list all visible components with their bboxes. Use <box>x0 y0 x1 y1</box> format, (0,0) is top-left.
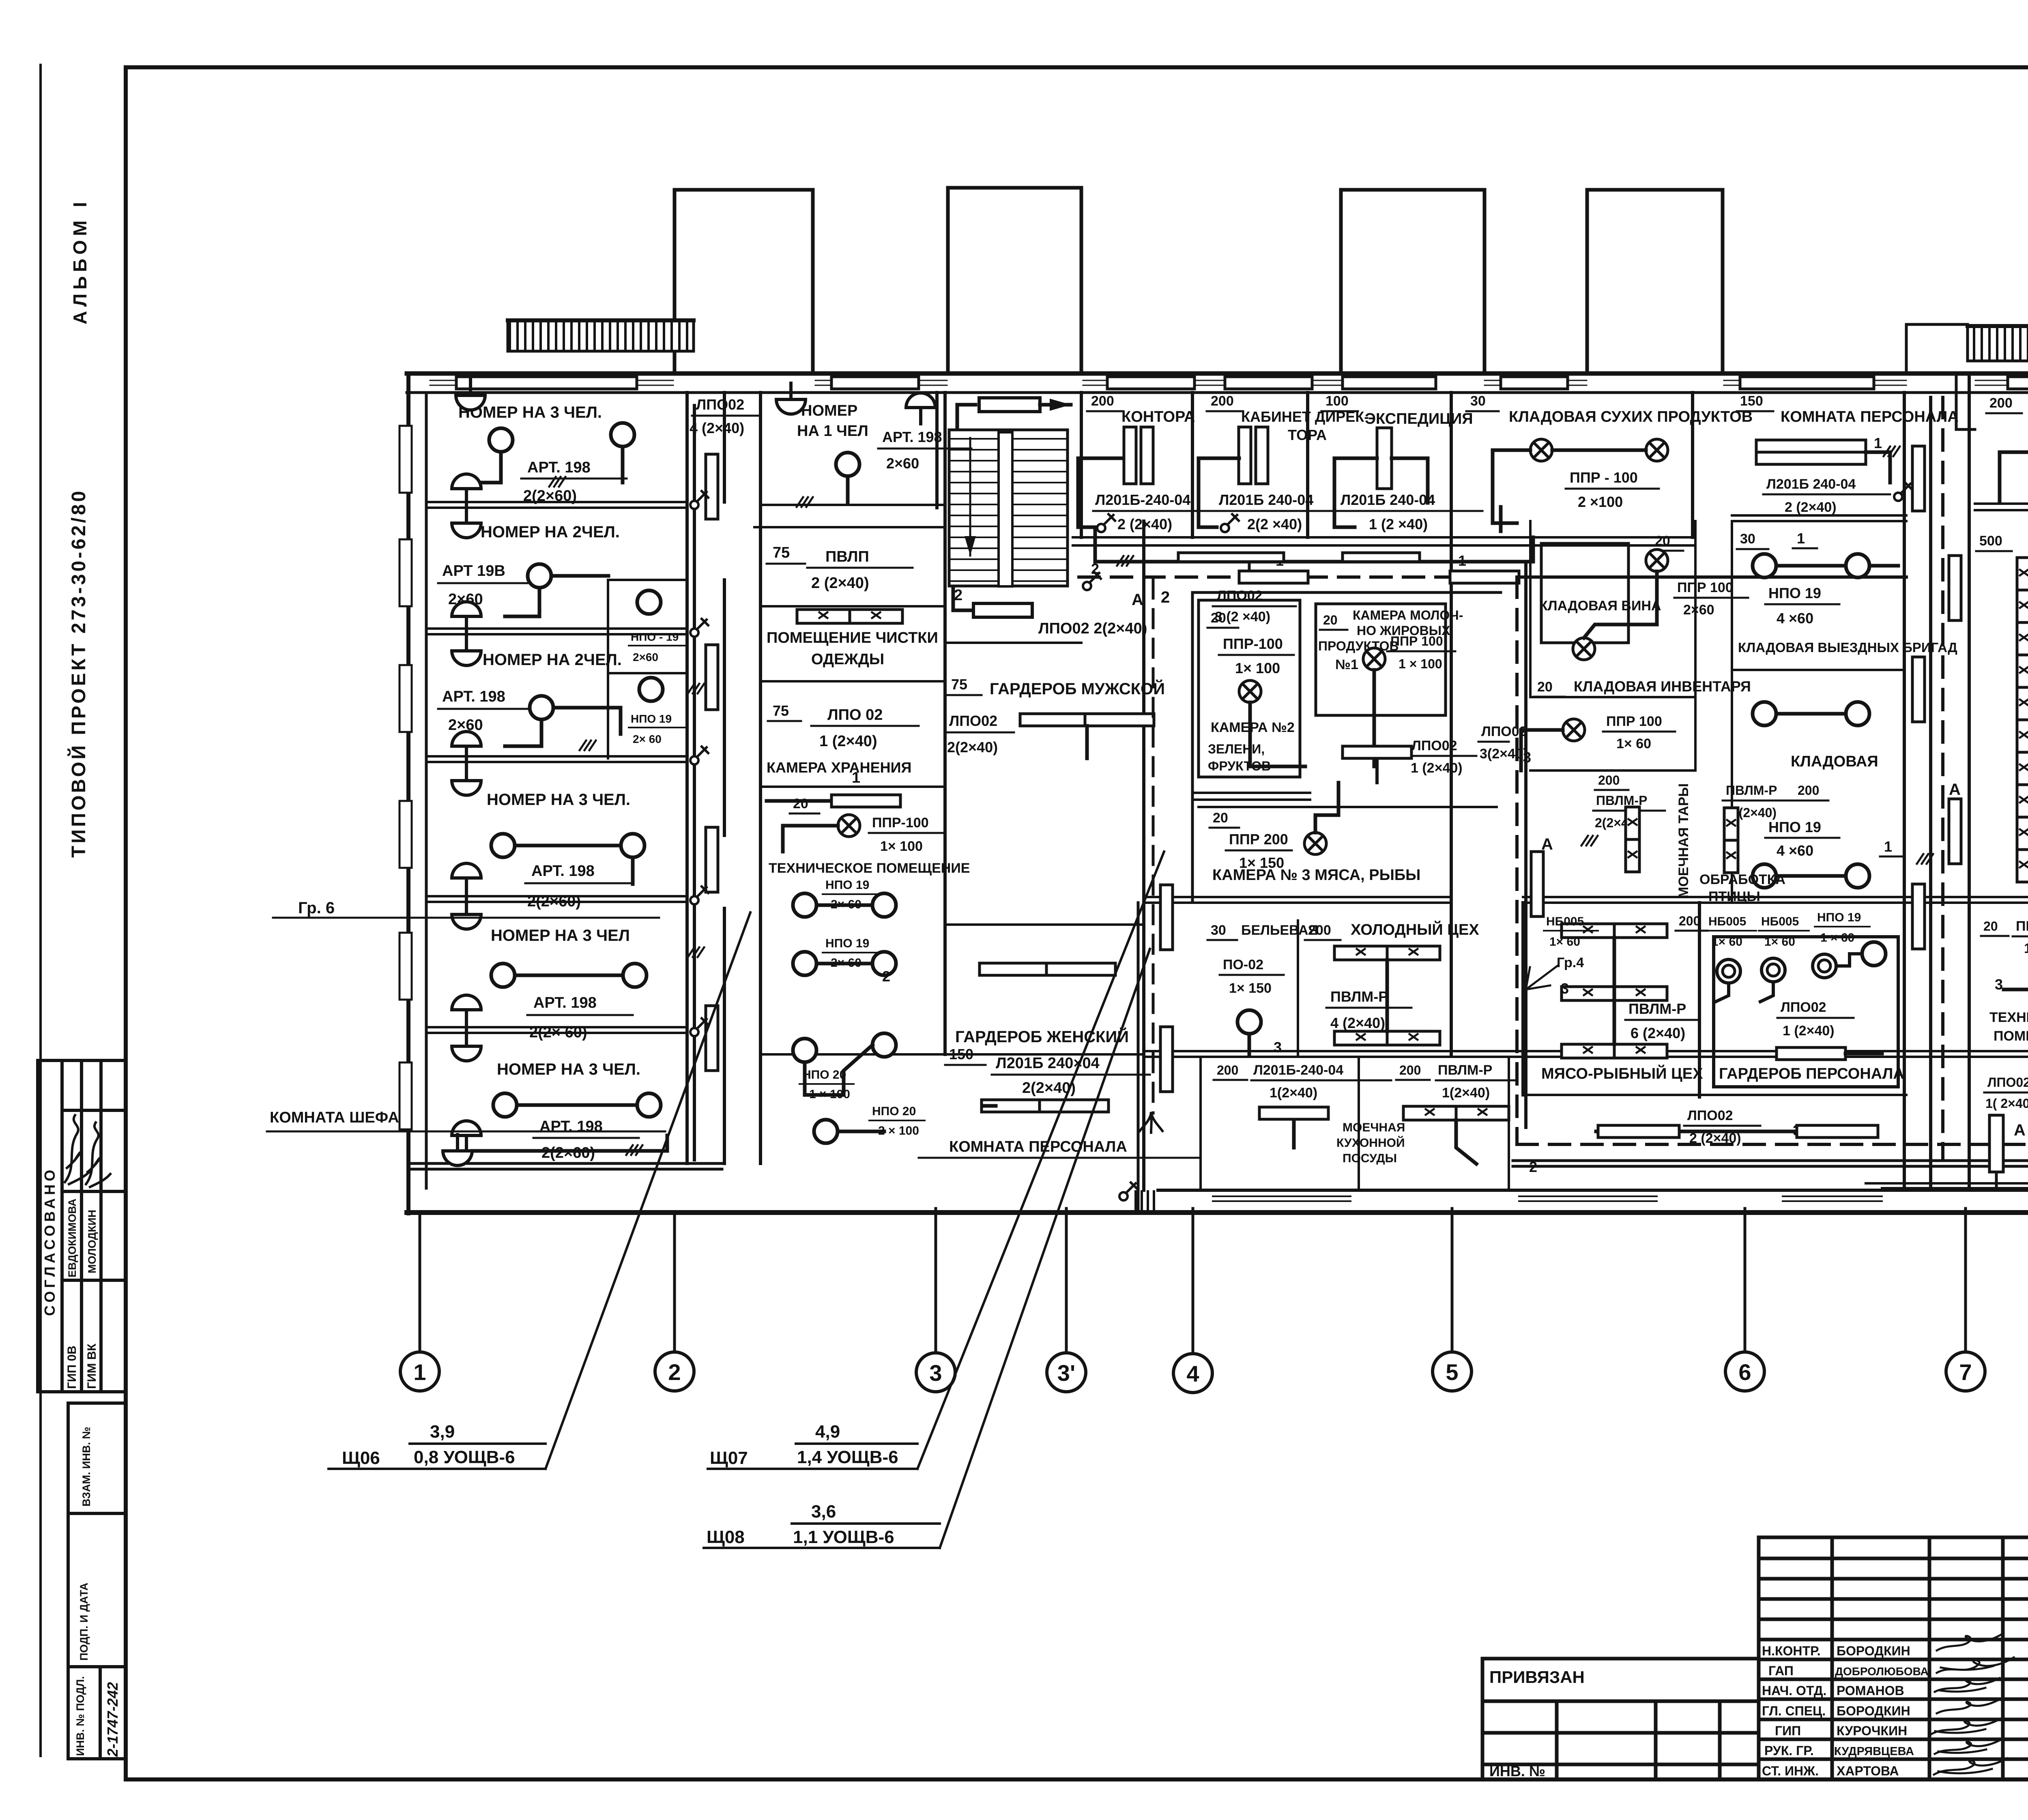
svg-text:4: 4 <box>1186 1361 1199 1386</box>
svg-text:НБ005: НБ005 <box>1708 915 1746 928</box>
svg-text:1(2×40): 1(2×40) <box>1442 1085 1490 1101</box>
svg-text:200: 200 <box>1399 1063 1421 1077</box>
svg-text:МОЕЧНАЯ: МОЕЧНАЯ <box>1343 1121 1405 1134</box>
svg-text:СОГЛАСОВАНО: СОГЛАСОВАНО <box>41 1167 58 1316</box>
svg-text:СТ. ИНЖ.: СТ. ИНЖ. <box>1762 1764 1819 1778</box>
title block <box>1482 1537 2028 1815</box>
svg-text:ПВЛМ-Р: ПВЛМ-Р <box>1726 783 1777 798</box>
svg-text:30: 30 <box>1470 393 1486 409</box>
svg-text:АРТ. 198: АРТ. 198 <box>531 863 595 880</box>
svg-text:ХОЛОДНЫЙ ЦЕХ: ХОЛОДНЫЙ ЦЕХ <box>1351 920 1479 938</box>
svg-text:МОЛОДКИН: МОЛОДКИН <box>86 1210 98 1273</box>
svg-text:2 (2×40): 2 (2×40) <box>811 575 869 592</box>
BUILDING <box>267 188 2028 1216</box>
female cloakroom fixtures <box>980 963 1048 975</box>
svg-text:20: 20 <box>1655 533 1670 549</box>
svg-text:КОМНАТА ПЕРСОНАЛА: КОМНАТА ПЕРСОНАЛА <box>949 1138 1127 1155</box>
NPO20 lamps lower <box>793 1039 816 1062</box>
middle production block vertical <box>1142 521 1145 1190</box>
svg-text:ГИП: ГИП <box>1775 1723 1801 1738</box>
svg-text:Л201Б 240-04: Л201Б 240-04 <box>1766 476 1856 492</box>
LPO02 2(2x40) left label <box>1083 572 1101 590</box>
inventory storage <box>1530 769 1695 772</box>
svg-text:1× 60: 1× 60 <box>1549 935 1580 949</box>
svg-text:2(2× 60): 2(2× 60) <box>529 1024 587 1041</box>
svg-text:ППР 100: ППР 100 <box>1390 634 1443 648</box>
svg-text:БОРОДКИН: БОРОДКИН <box>1837 1644 1910 1658</box>
svg-text:НПО 19: НПО 19 <box>1768 819 1821 835</box>
svg-text:ППР - 100: ППР - 100 <box>1570 469 1638 486</box>
svg-text:4 (2×40): 4 (2×40) <box>690 420 744 436</box>
room 6 lower wire <box>472 1135 667 1151</box>
svg-text:20: 20 <box>1323 613 1338 627</box>
svg-text:КАМЕРА №2: КАМЕРА №2 <box>1211 720 1295 735</box>
svg-text:АРТ 19В: АРТ 19В <box>442 562 505 579</box>
dome pair r3/r4 <box>452 732 481 762</box>
svg-text:НОМЕР НА 2ЧЕЛ.: НОМЕР НА 2ЧЕЛ. <box>483 651 622 669</box>
svg-text:75: 75 <box>773 544 790 561</box>
balcony hatched strip left <box>508 320 694 351</box>
svg-text:4 ×60: 4 ×60 <box>1777 842 1813 859</box>
svg-text:АРТ. 198: АРТ. 198 <box>442 688 505 705</box>
svg-text:5: 5 <box>1446 1359 1458 1385</box>
svg-text:НПО 20: НПО 20 <box>802 1068 846 1082</box>
svg-text:2(2×60): 2(2×60) <box>541 1144 595 1161</box>
svg-text:ЛПО02: ЛПО02 <box>1687 1108 1733 1123</box>
soglasovano table <box>38 1060 126 1392</box>
svg-text:КЛАДОВАЯ СУХИХ ПРОДУКТОВ: КЛАДОВАЯ СУХИХ ПРОДУКТОВ <box>1509 408 1753 425</box>
svg-text:Щ08: Щ08 <box>707 1527 745 1547</box>
svg-text:АЛЬБОМ I: АЛЬБОМ I <box>69 198 90 324</box>
svg-text:1 × 100: 1 × 100 <box>809 1088 850 1101</box>
svg-text:3: 3 <box>1561 980 1569 997</box>
left wall windows <box>400 426 412 1129</box>
svg-text:КАМЕРА ХРАНЕНИЯ: КАМЕРА ХРАНЕНИЯ <box>767 759 911 776</box>
svg-text:ЕВДОКИМОВА: ЕВДОКИМОВА <box>66 1199 78 1277</box>
svg-text:ГАРДЕРОБ ПЕРСОНАЛА: ГАРДЕРОБ ПЕРСОНАЛА <box>1719 1065 1904 1082</box>
svg-text:БЕЛЬЕВАЯ: БЕЛЬЕВАЯ <box>1241 923 1318 938</box>
switches along corridor <box>690 491 708 509</box>
right block konttora bottom <box>1975 502 2028 505</box>
top outer wall <box>407 371 2028 376</box>
svg-text:2: 2 <box>1091 560 1099 577</box>
wine storage room <box>1541 543 1628 643</box>
svg-text:150: 150 <box>1740 393 1763 409</box>
svg-text:КЛАДОВАЯ ВИНА: КЛАДОВАЯ ВИНА <box>1539 598 1661 614</box>
svg-text:РУК. ГР.: РУК. ГР. <box>1764 1743 1814 1758</box>
svg-text:1 (2×40): 1 (2×40) <box>1783 1023 1835 1039</box>
svg-text:ОДЕЖДЫ: ОДЕЖДЫ <box>811 651 884 668</box>
svg-text:А: А <box>1541 835 1553 853</box>
svg-text:3: 3 <box>1274 1039 1282 1056</box>
svg-text:ИНВ. № ПОДЛ.: ИНВ. № ПОДЛ. <box>74 1676 86 1756</box>
svg-text:ЛПО02: ЛПО02 <box>1217 588 1263 603</box>
feeder vertical dashed right-middle <box>1517 564 1526 1144</box>
camera rooms middle <box>1199 600 1300 777</box>
corridor dashed feeder horizontal <box>1079 575 1906 579</box>
svg-text:ГАРДЕРОБ ЖЕНСКИЙ: ГАРДЕРОБ ЖЕНСКИЙ <box>955 1027 1129 1046</box>
svg-text:Л201Б-240-04: Л201Б-240-04 <box>1095 491 1190 508</box>
svg-text:КЛАДОВАЯ ИНВЕНТАРЯ: КЛАДОВАЯ ИНВЕНТАРЯ <box>1574 678 1751 695</box>
svg-text:ЗЕЛЕНИ,: ЗЕЛЕНИ, <box>1208 742 1265 756</box>
svg-text:30: 30 <box>1211 923 1226 938</box>
svg-text:ФРУКТОВ: ФРУКТОВ <box>1208 759 1271 773</box>
svg-text:ПОДП. И ДАТА: ПОДП. И ДАТА <box>78 1583 90 1661</box>
svg-text:200: 200 <box>1091 393 1114 409</box>
svg-text:2× 60: 2× 60 <box>831 956 861 970</box>
svg-text:20: 20 <box>1983 919 1998 934</box>
top inner wall line <box>407 391 2028 394</box>
svg-text:2: 2 <box>668 1359 681 1385</box>
svg-text:200: 200 <box>1989 395 2013 411</box>
D-row corridor walls <box>1144 896 1451 898</box>
svg-text:4,9: 4,9 <box>815 1422 840 1442</box>
svg-text:КУРОЧКИН: КУРОЧКИН <box>1837 1723 1907 1738</box>
middle-left block <box>759 393 762 1163</box>
balcony hatched strip right <box>1906 324 2028 373</box>
svg-text:Щ07: Щ07 <box>710 1448 748 1468</box>
svg-text:ПО-02: ПО-02 <box>1223 957 1263 972</box>
svg-text:1: 1 <box>1874 435 1882 451</box>
svg-text:ГЛ. СПЕЦ.: ГЛ. СПЕЦ. <box>1762 1704 1826 1718</box>
male/female cloakroom separation <box>945 923 1144 926</box>
svg-text:№1: №1 <box>1335 657 1358 672</box>
svg-text:ППР 100: ППР 100 <box>1606 714 1662 729</box>
svg-text:20: 20 <box>1213 810 1228 826</box>
svg-text:2×60: 2×60 <box>1683 602 1714 618</box>
svg-text:А: А <box>1949 781 1961 798</box>
svg-text:2: 2 <box>1161 588 1170 606</box>
svg-text:ОБРАБОТКА: ОБРАБОТКА <box>1699 872 1785 887</box>
svg-text:НПО 19: НПО 19 <box>825 937 869 950</box>
svg-text:1: 1 <box>1884 838 1892 855</box>
svg-text:ПОМЕЩЕНИЕ: ПОМЕЩЕНИЕ <box>1994 1028 2028 1044</box>
svg-text:Л201Б 240×04: Л201Б 240×04 <box>996 1055 1100 1072</box>
svg-text:ЛПО02: ЛПО02 <box>949 713 997 729</box>
svg-text:2(2 ×40): 2(2 ×40) <box>1247 516 1302 532</box>
svg-text:КЛАДОВАЯ: КЛАДОВАЯ <box>1791 753 1878 770</box>
svg-text:2×60: 2×60 <box>633 651 658 663</box>
svg-text:2: 2 <box>882 968 890 985</box>
storage room <box>1753 702 1776 725</box>
svg-text:КУДРЯВЦЕВА: КУДРЯВЦЕВА <box>1834 1745 1914 1758</box>
svg-text:НПО 20: НПО 20 <box>872 1105 916 1118</box>
svg-text:4 ×60: 4 ×60 <box>1777 610 1813 627</box>
svg-text:20: 20 <box>793 796 808 811</box>
right block corridor <box>1968 376 1971 1190</box>
svg-text:НА 1 ЧЕЛ: НА 1 ЧЕЛ <box>797 423 868 440</box>
svg-text:А: А <box>2014 1121 2026 1139</box>
svg-text:1× 100: 1× 100 <box>1235 660 1280 676</box>
main staircase <box>949 430 1068 586</box>
page edge thin line left <box>39 65 42 1756</box>
svg-text:6: 6 <box>1738 1359 1751 1385</box>
svg-text:НОМЕР НА 2ЧЕЛ.: НОМЕР НА 2ЧЕЛ. <box>481 523 620 541</box>
svg-text:3: 3 <box>1995 976 2003 993</box>
svg-text:20: 20 <box>1211 610 1226 626</box>
svg-text:1(2×40): 1(2×40) <box>1270 1085 1317 1101</box>
svg-text:3,9: 3,9 <box>430 1422 455 1442</box>
svg-text:АРТ. 198: АРТ. 198 <box>533 994 597 1011</box>
svg-text:4 (2×40): 4 (2×40) <box>1330 1015 1385 1031</box>
svg-text:НПО 19: НПО 19 <box>631 713 672 725</box>
svg-text:ПВЛМ-Р: ПВЛМ-Р <box>1438 1062 1492 1078</box>
svg-text:ППР 200: ППР 200 <box>1229 831 1288 848</box>
svg-text:200: 200 <box>1211 393 1234 409</box>
svg-text:75: 75 <box>951 676 967 693</box>
svg-text:2 (2×40): 2 (2×40) <box>1785 500 1837 515</box>
offices row bottom <box>1073 536 1695 539</box>
svg-text:ЛПО02 2(2×40): ЛПО02 2(2×40) <box>1038 620 1147 637</box>
svg-text:3,6: 3,6 <box>811 1502 836 1522</box>
svg-text:7: 7 <box>1959 1359 1972 1385</box>
svg-text:150: 150 <box>949 1046 973 1062</box>
hotel block right wall / corridor <box>685 393 689 1163</box>
signatures sidebar <box>65 1115 110 1187</box>
bottom outer wall <box>407 1210 2028 1215</box>
svg-text:КУХОННОЙ: КУХОННОЙ <box>1336 1136 1405 1150</box>
svg-text:2×60: 2×60 <box>886 455 919 472</box>
svg-text:ГИМ ВК: ГИМ ВК <box>85 1343 99 1389</box>
stair tower 2 <box>948 188 1081 373</box>
svg-text:30: 30 <box>1740 531 1755 547</box>
risers <box>706 454 718 519</box>
svg-text:ПВЛП: ПВЛП <box>825 548 869 565</box>
svg-text:75: 75 <box>773 702 789 719</box>
svg-text:НБ005: НБ005 <box>1546 915 1584 928</box>
svg-text:АРТ. 198: АРТ. 198 <box>882 429 942 445</box>
svg-text:ПРИВЯЗАН: ПРИВЯЗАН <box>1489 1668 1585 1687</box>
group feeder labels Shch06/07/08 <box>329 852 1164 1548</box>
svg-text:Гр.4: Гр.4 <box>1557 955 1584 970</box>
dome pair r6 bottom <box>452 1121 481 1152</box>
svg-text:КЛАДОВАЯ ВЫЕЗДНЫХ БРИГАД: КЛАДОВАЯ ВЫЕЗДНЫХ БРИГАД <box>1738 640 1957 655</box>
svg-text:100: 100 <box>1326 393 1349 409</box>
axis 3' feeder cluster <box>1136 580 1162 1213</box>
svg-text:НОМЕР НА 3 ЧЕЛ.: НОМЕР НА 3 ЧЕЛ. <box>497 1060 640 1078</box>
svg-text:ПТИЦЫ: ПТИЦЫ <box>1708 889 1760 904</box>
svg-text:ПВЛМ-Р: ПВЛМ-Р <box>1330 988 1388 1005</box>
svg-text:РОМАНОВ: РОМАНОВ <box>1837 1683 1904 1698</box>
svg-text:2(2×40): 2(2×40) <box>947 739 998 755</box>
svg-text:1 × 100: 1 × 100 <box>1399 657 1442 671</box>
svg-text:КОМНАТА ШЕФА: КОМНАТА ШЕФА <box>270 1109 399 1126</box>
svg-text:ППР-100: ППР-100 <box>2016 919 2028 934</box>
svg-text:ЭКСПЕДИЦИЯ: ЭКСПЕДИЦИЯ <box>1365 410 1473 427</box>
left outer wall <box>406 373 410 1213</box>
svg-text:Щ06: Щ06 <box>342 1448 380 1468</box>
svg-text:200: 200 <box>1798 783 1819 798</box>
G1-row corridor walls <box>1144 1050 2028 1052</box>
left hotel block partitions <box>426 502 687 1033</box>
svg-text:ППР 100: ППР 100 <box>1677 580 1733 595</box>
stair hall fixtures <box>953 398 1071 617</box>
room N2-3 lamp <box>530 696 553 719</box>
svg-text:2(2×60): 2(2×60) <box>527 893 581 910</box>
svg-text:1 (2 ×40): 1 (2 ×40) <box>1369 516 1428 532</box>
svg-text:Н.КОНТР.: Н.КОНТР. <box>1762 1644 1821 1658</box>
svg-text:БОРОДКИН: БОРОДКИН <box>1837 1704 1910 1718</box>
svg-text:ТОРА: ТОРА <box>1288 427 1327 443</box>
closets in rooms 2-3 <box>608 579 687 581</box>
svg-text:ПВЛМ-Р: ПВЛМ-Р <box>1628 1000 1686 1017</box>
svg-text:ГАП: ГАП <box>1768 1663 1794 1678</box>
lower sidebar table <box>68 1403 126 1759</box>
right corridor vertical wires <box>1931 397 1943 1188</box>
svg-text:Л201Б 240-04: Л201Б 240-04 <box>1341 491 1435 508</box>
svg-text:КОНТОРА: КОНТОРА <box>1121 408 1195 425</box>
dome lights left wall r1 <box>456 379 485 410</box>
svg-text:ХАРТОВА: ХАРТОВА <box>1837 1764 1899 1778</box>
svg-text:200: 200 <box>1598 773 1620 788</box>
svg-text:500: 500 <box>1979 533 2002 549</box>
svg-text:АРТ. 198: АРТ. 198 <box>539 1118 603 1135</box>
svg-text:Л201Б 240-04: Л201Б 240-04 <box>1219 491 1313 508</box>
svg-text:200: 200 <box>1217 1063 1238 1077</box>
svg-text:НПО - 19: НПО - 19 <box>631 631 679 643</box>
svg-text:НПО 19: НПО 19 <box>1817 911 1861 924</box>
stair block walls <box>1080 393 1083 537</box>
svg-text:МЯСО-РЫБНЫЙ ЦЕХ: МЯСО-РЫБНЫЙ ЦЕХ <box>1541 1064 1703 1082</box>
svg-text:20: 20 <box>1537 679 1553 695</box>
svg-text:2(2×60): 2(2×60) <box>523 487 577 504</box>
phase tick marks <box>549 477 565 487</box>
svg-text:1 (2×40): 1 (2×40) <box>819 733 877 750</box>
svg-text:НБ005: НБ005 <box>1761 915 1799 928</box>
window thin lines on top wall <box>430 380 673 381</box>
svg-text:2 ×100: 2 ×100 <box>1578 494 1623 510</box>
left attachment table <box>1482 1659 1759 1779</box>
svg-text:НОМЕР НА 3 ЧЕЛ.: НОМЕР НА 3 ЧЕЛ. <box>487 791 630 809</box>
svg-text:200: 200 <box>1308 923 1331 938</box>
svg-text:1 (2×40): 1 (2×40) <box>1411 760 1463 776</box>
right-middle block <box>1903 393 1906 1190</box>
right block top jog <box>1956 373 1975 429</box>
svg-text:1× 150: 1× 150 <box>1229 981 1272 996</box>
svg-text:НПО 19: НПО 19 <box>825 878 869 892</box>
svg-text:ППР-100: ППР-100 <box>872 815 929 831</box>
svg-text:2 (2×40): 2 (2×40) <box>1117 516 1172 532</box>
svg-text:Гр. 6: Гр. 6 <box>298 899 335 917</box>
svg-text:КАМЕРА МОЛОЧ-: КАМЕРА МОЛОЧ- <box>1353 608 1463 622</box>
svg-text:ИНВ. №: ИНВ. № <box>1489 1763 1545 1779</box>
dome pair r4/r5 <box>452 863 481 894</box>
svg-text:ТЕХНИЧЕСКОЕ ПОМЕЩЕНИЕ: ТЕХНИЧЕСКОЕ ПОМЕЩЕНИЕ <box>769 861 970 876</box>
room N2-2 lamp <box>528 564 551 588</box>
svg-text:НАЧ. ОТД.: НАЧ. ОТД. <box>1762 1683 1826 1698</box>
svg-text:НОМЕР: НОМЕР <box>801 402 857 419</box>
svg-text:2× 60: 2× 60 <box>633 733 662 745</box>
svg-text:Л201Б-240-04: Л201Б-240-04 <box>1253 1062 1343 1078</box>
svg-text:6 (2×40): 6 (2×40) <box>1631 1025 1685 1041</box>
svg-text:КАМЕРА № 3 МЯСА, РЫБЫ: КАМЕРА № 3 МЯСА, РЫБЫ <box>1212 867 1420 884</box>
office partitions <box>1191 393 1194 537</box>
svg-text:ВЗАМ. ИНВ. №: ВЗАМ. ИНВ. № <box>80 1427 92 1507</box>
svg-text:ЛПО02: ЛПО02 <box>1781 1000 1826 1015</box>
approval signatures <box>1931 1634 2014 1775</box>
svg-text:НПО 19: НПО 19 <box>1768 585 1821 601</box>
svg-text:ТЕХНИЧЕСКОЕ: ТЕХНИЧЕСКОЕ <box>1989 1010 2028 1025</box>
svg-text:2: 2 <box>1529 1159 1537 1175</box>
closet lamps НПО19 <box>637 590 661 614</box>
svg-text:ЛПО02: ЛПО02 <box>1411 738 1457 753</box>
svg-text:3: 3 <box>929 1360 942 1386</box>
axis circles bottom <box>420 1208 2028 1352</box>
svg-text:ДОБРОЛЮБОВА: ДОБРОЛЮБОВА <box>1835 1665 1929 1678</box>
svg-text:ГАРДЕРОБ МУЖСКОЙ: ГАРДЕРОБ МУЖСКОЙ <box>990 679 1165 698</box>
corridor vertical wire <box>693 406 696 1160</box>
svg-text:2-1747-242: 2-1747-242 <box>104 1682 121 1757</box>
approvals table <box>1759 1537 2028 1779</box>
stair tower 3 <box>1341 190 1484 373</box>
svg-text:ППР-100: ППР-100 <box>1223 635 1283 652</box>
dome pair r5/r6 <box>452 995 481 1026</box>
cold shop / linen walls <box>1297 921 1299 1054</box>
svg-text:2: 2 <box>954 587 962 604</box>
svg-text:ЛПО02: ЛПО02 <box>696 396 744 413</box>
svg-text:1× 100: 1× 100 <box>2024 941 2028 956</box>
svg-text:ГИП 0В: ГИП 0В <box>65 1346 79 1389</box>
svg-text:2 × 100: 2 × 100 <box>878 1124 919 1137</box>
svg-text:1,4 УОЩВ-6: 1,4 УОЩВ-6 <box>797 1447 898 1467</box>
meat-fish shop walls <box>1521 903 1525 1095</box>
wire bus under offices <box>1095 527 1533 577</box>
svg-text:1× 100: 1× 100 <box>880 839 923 854</box>
svg-text:ПОСУДЫ: ПОСУДЫ <box>1343 1152 1397 1165</box>
stair tower 4 <box>1587 190 1723 373</box>
svg-text:2× 60: 2× 60 <box>831 898 861 911</box>
svg-text:ЛПО 02: ЛПО 02 <box>827 706 883 723</box>
window sill ticks top wall <box>456 377 2028 389</box>
svg-text:0,8 УОЩВ-6: 0,8 УОЩВ-6 <box>414 1447 515 1467</box>
svg-text:1× 60: 1× 60 <box>1616 736 1651 751</box>
svg-text:ТИПОВОЙ ПРОЕКТ 273-30-62/80: ТИПОВОЙ ПРОЕКТ 273-30-62/80 <box>67 489 90 858</box>
dome pair r2/r3 <box>452 602 481 633</box>
svg-text:ЛПО02: ЛПО02 <box>1987 1075 2028 1090</box>
svg-text:1,1 УОЩВ-6: 1,1 УОЩВ-6 <box>793 1527 894 1547</box>
svg-text:МОЕЧНАЯ ТАРЫ: МОЕЧНАЯ ТАРЫ <box>1676 783 1691 898</box>
svg-text:АРТ. 198: АРТ. 198 <box>527 459 591 476</box>
svg-text:ПОМЕЩЕНИЕ ЧИСТКИ: ПОМЕЩЕНИЕ ЧИСТКИ <box>767 629 938 646</box>
svg-text:НОМЕР НА 3 ЧЕЛ: НОМЕР НА 3 ЧЕЛ <box>491 927 630 944</box>
svg-text:200: 200 <box>1679 914 1700 928</box>
svg-text:3': 3' <box>1057 1360 1075 1386</box>
svg-text:1: 1 <box>1797 530 1805 547</box>
arrow into lower right stair <box>1866 1129 2028 1188</box>
svg-text:А: А <box>1132 591 1143 609</box>
stair tower 1 <box>675 190 813 373</box>
room N3-1 lamps and wiring <box>489 428 513 452</box>
svg-text:1( 2×40): 1( 2×40) <box>1985 1096 2028 1111</box>
svg-text:1: 1 <box>413 1359 426 1385</box>
